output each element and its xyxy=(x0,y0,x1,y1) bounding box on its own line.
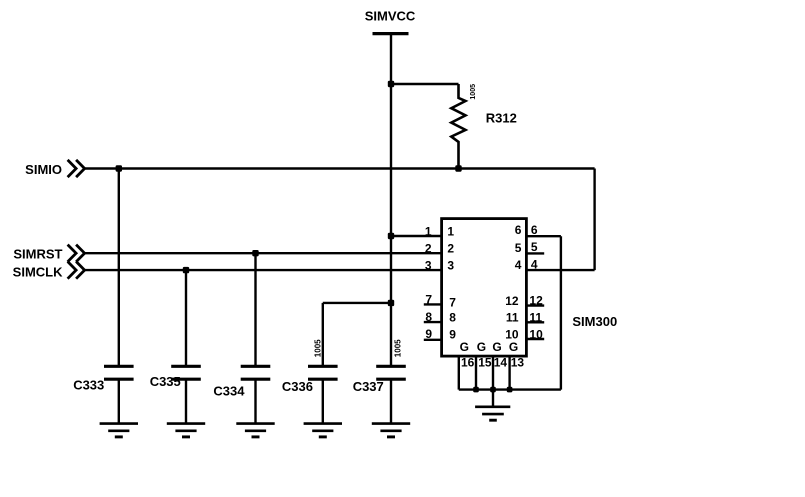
ground (C336) xyxy=(304,424,342,437)
port SIMCLK xyxy=(68,262,85,279)
svg-text:1005: 1005 xyxy=(470,84,477,100)
svg-text:C333: C333 xyxy=(73,378,104,393)
capacitor C335 xyxy=(171,366,201,423)
ground (C335) xyxy=(167,424,205,437)
wire SIMIO to pin 4 xyxy=(526,269,594,271)
svg-text:SIM300: SIM300 xyxy=(572,314,617,329)
svg-text:G: G xyxy=(492,340,501,354)
svg-text:G: G xyxy=(477,340,486,354)
svg-text:C336: C336 xyxy=(282,379,313,394)
net label SIMIO xyxy=(25,162,62,177)
svg-text:3: 3 xyxy=(425,259,432,273)
value label 1005 (C336) xyxy=(314,339,323,357)
pin 5 xyxy=(515,240,544,255)
svg-text:7: 7 xyxy=(425,292,432,306)
wire pin 6 to ground bus xyxy=(560,236,562,389)
label C334 xyxy=(213,383,245,398)
ground (C333) xyxy=(100,424,138,437)
wire SIMVCC to R312 xyxy=(391,83,459,85)
capacitor C333 xyxy=(104,366,134,423)
pin 4 labels xyxy=(515,257,538,272)
wire SIMIO xyxy=(85,167,595,169)
svg-text:6: 6 xyxy=(531,223,538,237)
port SIMIO xyxy=(68,160,85,177)
resistor R312 xyxy=(451,84,465,169)
svg-text:C334: C334 xyxy=(213,383,245,398)
svg-text:G: G xyxy=(509,340,518,354)
net label SIMCLK xyxy=(13,264,63,279)
pin 14 (G) xyxy=(492,340,507,390)
node SIMRST-C334 junction xyxy=(252,250,258,256)
svg-text:SIMIO: SIMIO xyxy=(25,162,62,177)
svg-text:9: 9 xyxy=(449,328,456,342)
svg-text:SIMRST: SIMRST xyxy=(13,246,62,261)
ground (C334) xyxy=(236,424,274,437)
wire SIMVCC to pin 1 xyxy=(391,235,442,237)
svg-text:9: 9 xyxy=(425,327,432,341)
pin 2 labels xyxy=(425,242,455,256)
IC SIM300 body xyxy=(442,219,527,357)
svg-text:8: 8 xyxy=(449,311,456,325)
wire SIMVCC vertical xyxy=(390,34,392,367)
svg-text:8: 8 xyxy=(425,310,432,324)
pin 6 xyxy=(515,223,561,237)
label C335 xyxy=(150,374,181,389)
node R312-SIMIO junction xyxy=(455,165,461,171)
svg-text:1: 1 xyxy=(425,224,432,238)
wire SIMIO right vertical xyxy=(593,169,595,271)
ground (IC) xyxy=(475,390,510,421)
wire C336 branch vertical xyxy=(322,303,324,366)
net label SIMRST xyxy=(13,246,62,261)
pin 15 (G) xyxy=(476,340,492,390)
svg-text:1: 1 xyxy=(447,224,454,238)
wire C335 branch xyxy=(185,270,187,366)
svg-text:14: 14 xyxy=(494,356,508,370)
svg-text:13: 13 xyxy=(511,356,525,370)
svg-text:3: 3 xyxy=(447,259,454,273)
node SIMCLK-C335 junction xyxy=(183,267,189,273)
svg-text:7: 7 xyxy=(449,296,456,310)
pin 7 xyxy=(424,292,457,309)
svg-text:1005: 1005 xyxy=(394,339,403,357)
wire C333 branch xyxy=(118,169,120,367)
svg-text:SIMCLK: SIMCLK xyxy=(13,264,63,279)
pin 12 xyxy=(505,294,544,309)
pin 3 labels xyxy=(425,259,455,273)
wire C336 branch horizontal xyxy=(323,302,391,304)
svg-text:11: 11 xyxy=(529,311,542,325)
wire C334 branch xyxy=(254,253,256,366)
svg-text:G: G xyxy=(460,340,469,354)
value label 1005 (R312) xyxy=(470,84,477,100)
svg-text:C335: C335 xyxy=(150,374,181,389)
svg-text:C337: C337 xyxy=(353,379,384,394)
label C336 xyxy=(282,379,313,394)
node SIMVCC-pin1 junction xyxy=(388,233,394,239)
port SIMRST xyxy=(68,245,85,262)
svg-text:12: 12 xyxy=(529,294,543,308)
svg-text:4: 4 xyxy=(515,258,522,272)
svg-text:4: 4 xyxy=(531,257,538,271)
node SIMVCC-R312 junction xyxy=(388,81,394,87)
pin 8 xyxy=(424,310,457,325)
label R312 xyxy=(486,111,517,126)
net label SIMVCC xyxy=(365,9,416,24)
wire SIMCLK to pin 3 xyxy=(85,269,442,271)
capacitor C337 xyxy=(376,366,406,423)
node SIMIO-C333 junction xyxy=(116,165,122,171)
svg-text:10: 10 xyxy=(529,327,543,341)
node bus-pin13 junction xyxy=(507,387,513,393)
node SIMVCC-C336 junction xyxy=(388,300,394,306)
svg-text:5: 5 xyxy=(515,241,522,255)
pin 11 xyxy=(506,310,544,324)
wire ground bus xyxy=(459,388,561,390)
capacitor C336 xyxy=(308,366,338,423)
pin 1 labels xyxy=(425,224,455,238)
svg-text:15: 15 xyxy=(478,356,492,370)
svg-text:5: 5 xyxy=(531,240,538,254)
svg-text:11: 11 xyxy=(506,310,519,324)
part label SIM300 xyxy=(572,314,617,329)
node bus-pin14 junction xyxy=(490,387,496,393)
svg-text:16: 16 xyxy=(461,356,475,370)
node bus-pin15 junction xyxy=(473,387,479,393)
pin 9 xyxy=(424,327,457,342)
power symbol SIMVCC xyxy=(373,32,409,35)
svg-text:2: 2 xyxy=(425,242,432,256)
svg-text:1005: 1005 xyxy=(314,339,323,357)
label C337 xyxy=(353,379,384,394)
value label 1005 (C337) xyxy=(394,339,403,357)
capacitor C334 xyxy=(241,366,271,423)
pin 13 (G) xyxy=(509,340,525,390)
pin 16 (G) xyxy=(459,340,475,390)
svg-text:R312: R312 xyxy=(486,111,517,126)
label C333 xyxy=(73,378,104,393)
svg-text:12: 12 xyxy=(505,294,519,308)
svg-text:2: 2 xyxy=(447,242,454,256)
svg-text:SIMVCC: SIMVCC xyxy=(365,9,416,24)
ground (C337) xyxy=(372,424,410,437)
wire SIMRST to pin 2 xyxy=(85,252,442,254)
pin 10 xyxy=(505,327,544,341)
svg-text:6: 6 xyxy=(515,223,522,237)
